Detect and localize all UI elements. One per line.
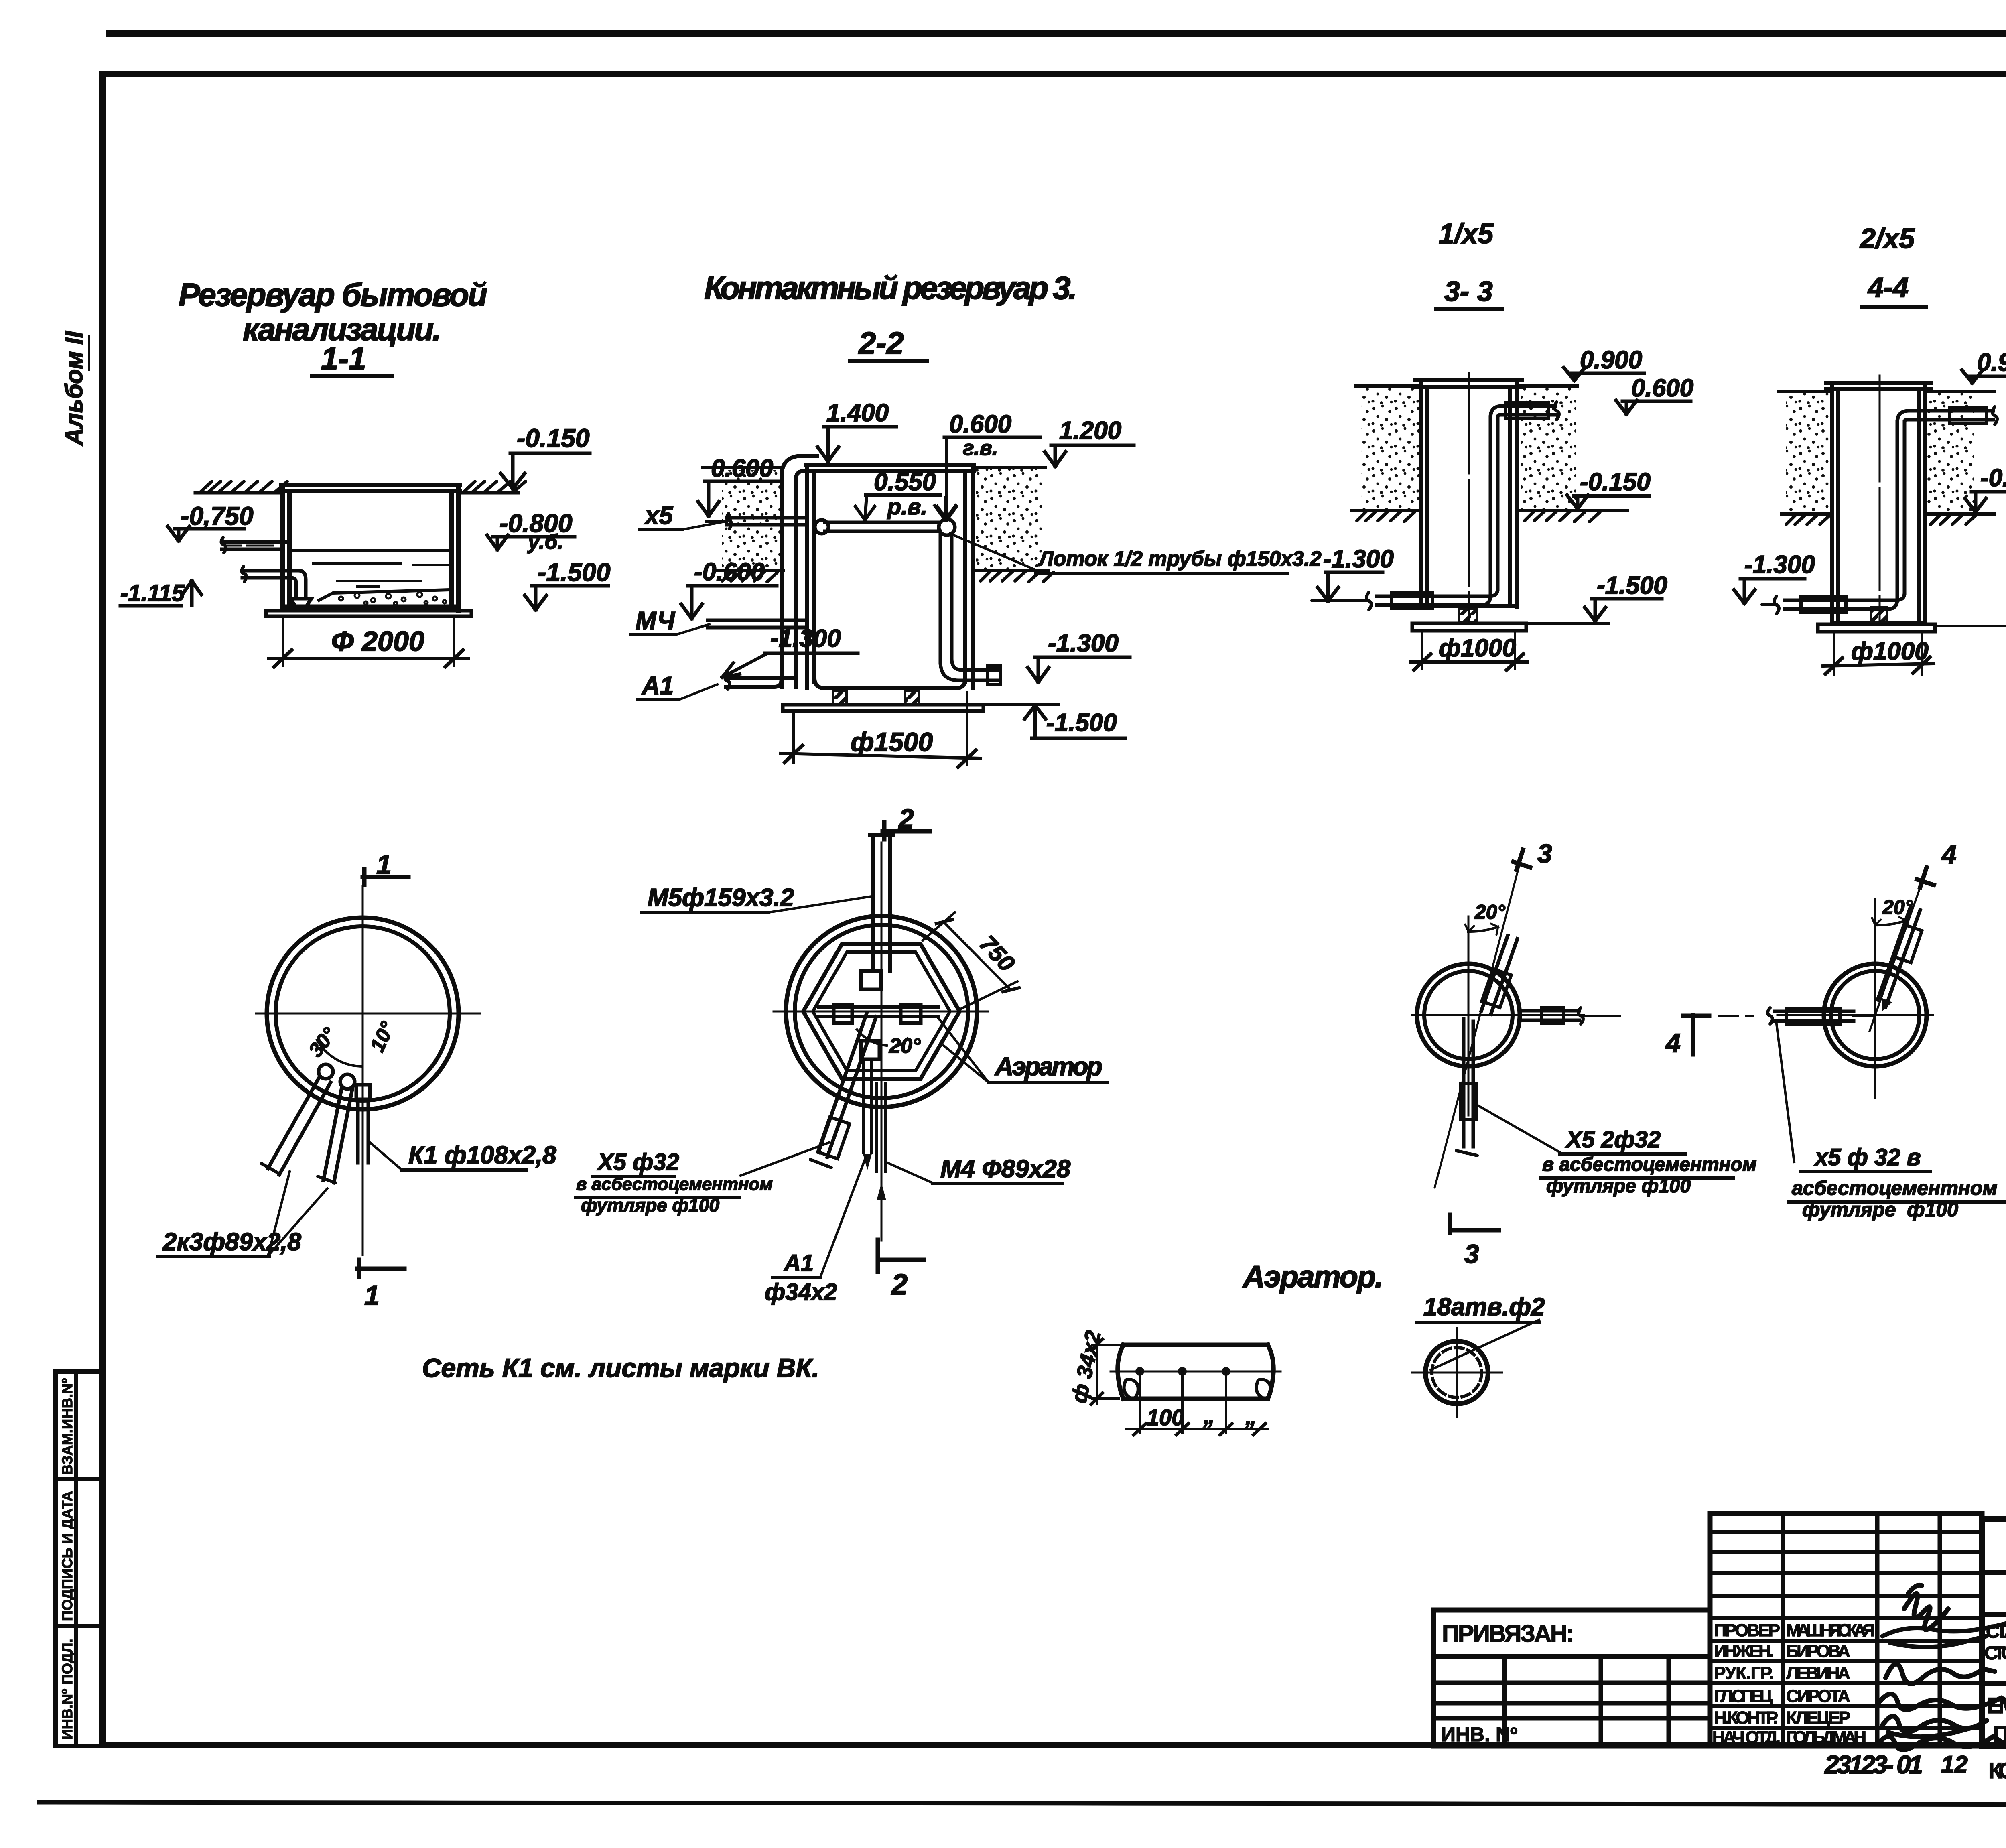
- svg-text:„: „: [1245, 1404, 1257, 1429]
- X5 pipe arrow to center plan4: [1882, 998, 1892, 1012]
- tank 4-4 right wall: [1919, 383, 1925, 624]
- elevation -1.300 arrow 3-3: [1318, 572, 1338, 601]
- label Х5 2ф32 underline1: [1560, 1152, 1685, 1156]
- label 2к3 leader 1: [268, 1172, 290, 1256]
- hole line 3: [1225, 1371, 1227, 1433]
- plan3 inner circle: [1424, 971, 1513, 1059]
- plan2 vertical axis: [881, 843, 883, 1241]
- elevation -0.150 arrow 4-4: [1965, 492, 1986, 512]
- svg-text:СИРОТА: СИРОТА: [1786, 1686, 1850, 1706]
- ground line right 4-4: [1926, 390, 1994, 393]
- elevation -1.115 shelf: [120, 604, 181, 608]
- water level line tank 1-1: [289, 549, 452, 552]
- X5 angled pipe plan3: [1481, 936, 1517, 1014]
- pipe K1 square coupling: [356, 1085, 370, 1099]
- svg-text:Альбом II: Альбом II: [61, 331, 87, 446]
- inlet pipe K1 upper: [222, 542, 289, 549]
- dim 2000 ext line left: [282, 616, 284, 666]
- elevation -1.500 shelf: [532, 584, 608, 588]
- X5 pipe end break: [810, 1160, 831, 1168]
- slab extension line 3-3: [1526, 622, 1609, 625]
- plan4 horizontal axis: [1777, 1014, 1933, 1016]
- sheet outer top edge line: [109, 30, 2006, 37]
- title 2-2 underline: [850, 359, 927, 363]
- svg-text:М4 Ф89х28: М4 Ф89х28: [940, 1155, 1071, 1183]
- angle arc plan3: [1468, 927, 1498, 932]
- svg-text:БИРОВА: БИРОВА: [1786, 1641, 1850, 1661]
- tank 1-1 left wall: [283, 485, 289, 607]
- svg-text:20°: 20°: [1474, 901, 1506, 923]
- ground hatch left of tank 1-1: [201, 481, 287, 492]
- dim ф34х2 ext lines: [1092, 1345, 1122, 1399]
- signature squiggle 3: [1886, 1664, 1995, 1684]
- lower pipe with elbow: [242, 571, 306, 599]
- elevation 0.600 гв shelf: [944, 436, 1040, 439]
- svg-text:в асбестоцементном: в асбестоцементном: [1542, 1154, 1756, 1175]
- tank 2-2 right wall: [965, 465, 973, 688]
- elevation -1.500 arrow: [525, 586, 546, 610]
- dim 1000 line 4-4: [1823, 664, 1934, 666]
- svg-text:-0.150: -0.150: [517, 424, 589, 453]
- label 18 отв leader: [1431, 1320, 1539, 1370]
- pipe B end break: [318, 1176, 335, 1183]
- riser bottom elbow 3-3: [1481, 589, 1498, 605]
- aerator pipe side view body: [1118, 1345, 1274, 1399]
- tank 1-1 base slab: [266, 611, 471, 616]
- elevation 1.400 arrow: [818, 427, 839, 461]
- name table col line 1: [1781, 1513, 1785, 1746]
- svg-text:ПРИВЯЗАН:: ПРИВЯЗАН:: [1442, 1620, 1574, 1647]
- ground hatch right of tank 1-1: [464, 481, 526, 492]
- svg-text:„: „: [1203, 1403, 1215, 1428]
- svg-text:НАЧ ОТД.: НАЧ ОТД.: [1712, 1728, 1781, 1747]
- angle arc plan4: [1875, 920, 1907, 925]
- label X5 underline: [640, 528, 682, 531]
- support pad hatched 4-4: [1871, 607, 1887, 622]
- elevation 0.900 arrow 3-3: [1564, 368, 1585, 380]
- elevation -0.150 arrow 3-3: [1567, 495, 1588, 509]
- svg-text:Сеть К1 см. листы марки ВК.: Сеть К1 см. листы марки ВК.: [422, 1353, 819, 1383]
- aerator hexagon inner: [813, 952, 950, 1071]
- elevation -0.150 arrow: [501, 453, 525, 489]
- center line 4-4: [1879, 376, 1881, 623]
- svg-text:-1.300: -1.300: [1744, 551, 1815, 579]
- plan3 horizontal axis: [1412, 1014, 1584, 1016]
- angle arc plan2: [857, 1030, 908, 1047]
- привязан grid vline2: [1599, 1656, 1603, 1746]
- tank 1-1 floor line: [283, 605, 458, 609]
- X5 vertical pipe below center plan3: [1464, 1019, 1473, 1147]
- elevation 0.600 left arrow: [698, 481, 719, 516]
- tank 1-1 right wall: [452, 485, 458, 611]
- label Х5 leader plan2: [741, 1143, 829, 1176]
- dim 2000 line: [269, 657, 469, 660]
- svg-text:-1.300: -1.300: [770, 625, 841, 652]
- tank 2-2 floor with rounded corners: [814, 678, 965, 688]
- ground hatch marks right 2-2: [981, 571, 1054, 582]
- svg-text:2: 2: [891, 1269, 908, 1301]
- inlet pipe dash center: [225, 545, 273, 547]
- svg-text:Н.КОНТР.: Н.КОНТР.: [1714, 1708, 1778, 1728]
- svg-text:3: 3: [1464, 1239, 1479, 1269]
- album label underline: [88, 336, 90, 370]
- svg-text:ИНВ.Nº ПОДЛ.: ИНВ.Nº ПОДЛ.: [59, 1639, 75, 1740]
- aerator cross section outer circle: [1425, 1341, 1488, 1404]
- label Х5 ф32в underline2: [1789, 1200, 2006, 1204]
- plan4 inner circle: [1831, 971, 1919, 1059]
- elevation -0.750 arrow: [168, 526, 189, 541]
- svg-text:0.600: 0.600: [711, 455, 773, 482]
- elevation 0.900 arrow 4-4: [1962, 370, 1983, 383]
- inlet pipe left break: [221, 538, 226, 553]
- pipe A end break: [262, 1164, 278, 1173]
- ground line left of tank 1-1: [195, 491, 283, 495]
- svg-text:0.550: 0.550: [874, 468, 936, 496]
- tank 1-1 top slab double line: [281, 485, 460, 491]
- pipe K1 vertical double line: [358, 1099, 368, 1163]
- horizontal pipe coupling plan3: [1541, 1007, 1564, 1024]
- ground hatch line right 4-4: [1925, 512, 1994, 516]
- signature squiggle 5: [1882, 1716, 1987, 1737]
- sediment slope line: [319, 590, 450, 600]
- aerator hexagon outer: [803, 944, 960, 1079]
- interior riser pipe 3-3: [1490, 417, 1498, 595]
- title 3-3 underline: [1436, 307, 1502, 311]
- привязан header bottom line: [1433, 1654, 1710, 1659]
- svg-text:М5ф159х3.2: М5ф159х3.2: [648, 884, 794, 912]
- ground hatch marks left 3-3: [1357, 511, 1415, 522]
- привязан grid vline1: [1502, 1656, 1507, 1746]
- riser top elbow and outlet stub 4-4: [1897, 411, 1993, 422]
- elevation -0.150 shelf 3-3: [1574, 494, 1649, 498]
- svg-text:Лоток 1/2 трубы ф150х3.2: Лоток 1/2 трубы ф150х3.2: [1038, 547, 1322, 571]
- dim 750 line: [944, 922, 1011, 990]
- ground stipple left 4-4: [1786, 393, 1829, 513]
- ground stipple left 3-3: [1361, 388, 1419, 510]
- elevation 1.200 arrow: [1045, 445, 1066, 466]
- svg-text:р.в.: р.в.: [887, 494, 927, 519]
- elevation 0.900 shelf 4-4: [1968, 375, 2006, 378]
- bottom pipe coupling 4-4: [1801, 597, 1846, 612]
- bottom pipe flow arrow break 4-4: [1762, 596, 1779, 614]
- svg-text:ГОЛЬДМАН: ГОЛЬДМАН: [1786, 1728, 1866, 1747]
- elevation 0.600 arrow 3-3: [1616, 400, 1637, 414]
- svg-text:0.600: 0.600: [949, 410, 1011, 438]
- dim 750 ext line 1: [923, 912, 955, 940]
- svg-text:1/х5: 1/х5: [1439, 218, 1494, 249]
- ground hatch line right 3-3: [1519, 509, 1627, 512]
- А1 pipe flow arrow: [863, 1154, 872, 1170]
- horizontal pipe coupling plan4: [1786, 1008, 1840, 1024]
- elevation -1.300 left arrow: [722, 654, 766, 677]
- svg-text:4: 4: [1665, 1028, 1681, 1058]
- horizontal pipe left plan4: [1775, 1011, 1854, 1021]
- tank 2-2 left wall: [807, 465, 814, 688]
- svg-text:-1.300: -1.300: [1323, 545, 1394, 573]
- svg-text:ВЗАМ.ИНВ.Nº: ВЗАМ.ИНВ.Nº: [59, 1378, 75, 1475]
- sediment dots: [339, 592, 446, 605]
- aerator cross section holes circle dashed: [1432, 1348, 1482, 1397]
- svg-text:3: 3: [1537, 839, 1552, 868]
- ground line left 4-4: [1779, 390, 1831, 393]
- elbow circle A: [319, 1064, 333, 1079]
- dim 1000 tick right 3-3: [1507, 654, 1523, 670]
- tank 3-3 base slab: [1412, 623, 1526, 631]
- elevation 0.600 left shelf: [705, 480, 780, 483]
- svg-text:СТАНЦИЯ БИОЛОГИЧЕСКОЙ ОЧИСТКИ: СТАНЦИЯ БИОЛОГИЧЕСКОЙ ОЧИСТКИ: [1986, 1621, 2006, 1642]
- stamp column divider vertical: [74, 1372, 78, 1746]
- right water level arrow: [935, 498, 956, 520]
- X5 angled pipe 20deg: [818, 1013, 876, 1157]
- ground line right of tank 1-1: [458, 491, 518, 495]
- svg-text:-1.500: -1.500: [538, 558, 610, 587]
- elevation 0.600 гв arrow long: [937, 437, 956, 520]
- elevation -0.800 shelf: [493, 535, 575, 539]
- A1 pipe left break: [725, 674, 730, 689]
- horizontal connector pipe: [818, 1007, 939, 1017]
- svg-text:г.в.: г.в.: [963, 437, 998, 460]
- dim 1000 ext right 4-4: [1921, 633, 1923, 675]
- elevation 1.200 shelf: [1051, 444, 1134, 447]
- X5 angled coupling plan4: [1894, 925, 1922, 963]
- elevation -0.600 arrow: [681, 586, 702, 619]
- elevation -0.150 shelf: [510, 452, 590, 455]
- svg-text:х5 ф 32 в: х5 ф 32 в: [1814, 1144, 1921, 1170]
- horizontal pipe end hook plan3: [1578, 1008, 1583, 1024]
- ground line left 3-3: [1356, 384, 1420, 388]
- elevation -1.300 arrow 4-4: [1734, 579, 1755, 603]
- label М5 leader: [769, 896, 871, 912]
- tank 4-4 floor: [1832, 621, 1925, 625]
- section marker 3 top slanted: [1513, 850, 1530, 870]
- label А1 leader: [679, 684, 717, 700]
- svg-text:12: 12: [1941, 1751, 1968, 1778]
- plan2 inner circle: [795, 925, 968, 1098]
- plan3 slanted cut line: [1435, 865, 1519, 1188]
- elevation -1.300 shelf 4-4: [1740, 577, 1805, 581]
- hole dim line: [1126, 1428, 1268, 1430]
- tank 4-4 top double line: [1826, 383, 1931, 389]
- dim 0.550 line: [866, 493, 940, 497]
- svg-text:А1: А1: [783, 1250, 814, 1276]
- svg-text:2/х5: 2/х5: [1859, 223, 1915, 254]
- section marker 2 bottom plan2: [878, 1241, 924, 1272]
- elbow circle B: [340, 1074, 355, 1089]
- ground hatch marks left 4-4: [1786, 515, 1830, 524]
- А1 pipe down: [863, 1059, 871, 1152]
- outlet stub end hook 3-3: [1554, 402, 1559, 420]
- label X5 leader: [682, 521, 727, 530]
- signature squiggle 1: [1904, 1585, 1948, 1630]
- ground hatch marks right 4-4: [1931, 515, 1976, 524]
- section marker 3 bottom: [1450, 1215, 1499, 1233]
- tank 2-2 base slab: [783, 705, 983, 711]
- trough left end circle: [815, 520, 828, 534]
- svg-text:ЛЕВИНА: ЛЕВИНА: [1786, 1663, 1850, 1683]
- tank 3-3 left wall: [1421, 380, 1427, 607]
- hole dot 1: [1135, 1367, 1144, 1376]
- left stamp column outline: [55, 1372, 103, 1746]
- svg-text:3- 3: 3- 3: [1444, 276, 1493, 307]
- ground line left of tank 2-2: [703, 466, 782, 469]
- angle arc plan1: [317, 1040, 362, 1066]
- svg-text:-1.500: -1.500: [1597, 572, 1667, 599]
- label К1 underline: [402, 1168, 526, 1172]
- dim 1500 tick right: [958, 750, 976, 767]
- elevation -1.300 shelf 3-3: [1326, 571, 1383, 574]
- horizontal pipe tail plan4: [1854, 1015, 1875, 1017]
- svg-text:ф1000: ф1000: [1851, 638, 1929, 665]
- elevation -1.500 right arrow up: [1025, 705, 1046, 738]
- X5 inlet pipe horizontal: [727, 518, 806, 525]
- svg-text:х5: х5: [644, 502, 673, 530]
- name table col line 3: [1938, 1513, 1942, 1746]
- label 2к3 underline: [157, 1255, 270, 1258]
- label аэратор underline: [989, 1081, 1107, 1084]
- name table row lines: [1710, 1532, 1982, 1728]
- привязан box outline: [1433, 1610, 1710, 1746]
- ground stipple right 4-4: [1927, 393, 1974, 513]
- svg-text:ПОДПИСЬ И ДАТА: ПОДПИСЬ И ДАТА: [59, 1491, 75, 1621]
- ground stipple left berm: [722, 470, 780, 570]
- X5 pipe end break plan3: [1456, 1151, 1477, 1156]
- svg-text:ф34х2: ф34х2: [765, 1279, 837, 1305]
- title 4-4 underline: [1862, 305, 1926, 309]
- label аэратор leader 2: [944, 1046, 989, 1082]
- label М4 leader plan2: [887, 1163, 932, 1183]
- sheet outer bottom edge line: [39, 1802, 2006, 1805]
- outlet stub coupling 3-3: [1505, 403, 1549, 419]
- horizontal pipe right plan3: [1520, 1011, 1579, 1020]
- elevation -1.300 right arrow: [1028, 657, 1049, 682]
- bottom pipe flow arrow break 3-3: [1312, 592, 1371, 610]
- label М4 underline: [631, 633, 676, 636]
- dim ф34х2 ticks: [1091, 1339, 1102, 1404]
- dim 750 tick 1: [936, 920, 952, 924]
- svg-text:Φ 2000: Φ 2000: [331, 625, 424, 657]
- label Х5 ф32 underline2: [575, 1196, 740, 1199]
- М5 pipe top cap: [870, 833, 893, 837]
- svg-text:Резервуар бытовой: Резервуар бытовой: [179, 277, 487, 313]
- М5 riser pipe vertical: [873, 835, 890, 971]
- center line 3-3: [1468, 373, 1470, 623]
- svg-text:ф1500: ф1500: [851, 727, 933, 757]
- elevation -0.800 arrow: [487, 535, 508, 550]
- coupling square bottom: [861, 1041, 879, 1059]
- plan1 horizontal axis: [256, 1013, 480, 1015]
- hole line 2: [1181, 1371, 1184, 1433]
- svg-text:Аэратор.: Аэратор.: [1242, 1260, 1383, 1294]
- svg-text:2: 2: [898, 804, 914, 834]
- svg-text:0.600: 0.600: [1631, 374, 1693, 402]
- ground line right of tank 2-2: [975, 466, 1046, 469]
- label М4 underline plan2: [932, 1182, 1062, 1185]
- label М5 underline: [642, 911, 769, 914]
- outlet pipe through right wall: [988, 666, 1001, 684]
- привязан grid vline3: [1667, 1656, 1671, 1746]
- svg-text:Х5 ф32: Х5 ф32: [597, 1149, 679, 1175]
- svg-text:у.б.: у.б.: [527, 530, 563, 554]
- elevation 0.900 shelf 3-3: [1570, 372, 1644, 375]
- привязан grid hline3: [1433, 1701, 1710, 1706]
- signature squiggle 2: [1882, 1617, 2006, 1647]
- svg-text:асбестоцементном: асбестоцементном: [1792, 1177, 1998, 1199]
- label А1 leader plan2: [821, 1157, 866, 1276]
- svg-text:-1.300: -1.300: [1048, 630, 1119, 657]
- aerator cross section h axis: [1412, 1372, 1502, 1374]
- section marker 2 top: [883, 822, 930, 839]
- label М4 leader: [676, 624, 709, 635]
- dim 0.550 left arrow: [855, 495, 875, 520]
- ground stipple right 3-3: [1521, 388, 1576, 510]
- ground hatch line left 4-4: [1781, 512, 1832, 516]
- dim 1000 ext left 4-4: [1833, 633, 1835, 675]
- X5 pipe left break flow arrow: [706, 514, 731, 529]
- plan3 outer circle: [1417, 964, 1520, 1066]
- plan2 outer circle: [786, 916, 977, 1107]
- plan1 outer circle: [267, 918, 459, 1109]
- signature squiggle 4: [1879, 1694, 2006, 1710]
- right title area outline: [1982, 1519, 2006, 1746]
- tank 4-4 left wall: [1832, 383, 1838, 624]
- svg-text:ПЛАНЫ. РАЗРЕЗЫ.: ПЛАНЫ. РАЗРЕЗЫ.: [1993, 1721, 2006, 1746]
- dim 1000 tick left 4-4: [1825, 658, 1842, 674]
- ground stipple right berm: [976, 468, 1043, 570]
- riser bottom elbow 4-4: [1888, 593, 1904, 609]
- plan4 slanted cut line: [1870, 883, 1922, 1031]
- coupling square top: [861, 971, 881, 989]
- svg-text:футляре ф100: футляре ф100: [581, 1195, 719, 1216]
- tank 3-3 floor: [1421, 604, 1517, 608]
- svg-text:ИНЖЕН.: ИНЖЕН.: [1714, 1641, 1774, 1661]
- outlet stub coupling 4-4: [1950, 408, 1987, 424]
- X5 angled pipe plan4: [1878, 907, 1920, 1007]
- svg-text:20°: 20°: [889, 1034, 921, 1058]
- svg-text:4-4: 4-4: [1867, 272, 1909, 303]
- dim 1000 ext right 3-3: [1514, 632, 1516, 669]
- dim 750 tick 2: [1003, 988, 1019, 992]
- elevation -1.500 right shelf: [1032, 737, 1125, 740]
- dim 1000 line 3-3: [1411, 660, 1527, 664]
- stamp cell divider 1: [55, 1477, 103, 1481]
- drop pipe vertical: [940, 531, 952, 663]
- емкостные сооружения bottom cell line: [1982, 1681, 2006, 1686]
- dim 1500 tick left: [785, 745, 802, 762]
- hole line 1: [1139, 1371, 1141, 1433]
- elevation -0.600 shelf: [688, 584, 777, 588]
- elevation -1.300 left shelf: [765, 652, 858, 655]
- svg-text:-0.600: -0.600: [694, 558, 765, 586]
- elevation -0.750 shelf: [175, 527, 244, 531]
- section marker 4 top slanted: [1917, 867, 1934, 887]
- svg-text:Х5 2ф32: Х5 2ф32: [1565, 1127, 1661, 1153]
- svg-text:ГЛ.СПЕЦ.: ГЛ.СПЕЦ.: [1714, 1686, 1774, 1706]
- svg-text:ф1000: ф1000: [1439, 634, 1516, 662]
- trough right elbow circle: [939, 519, 955, 535]
- svg-text:ПРОВЕР: ПРОВЕР: [1714, 1621, 1780, 1640]
- lower pipe left break: [242, 567, 246, 582]
- horizontal pipe break plan4: [1768, 1008, 1773, 1024]
- label лоток leader: [950, 534, 1039, 571]
- section marker 1 top: [363, 869, 408, 885]
- X5 angled coupling plan3: [1482, 969, 1511, 1008]
- axis dash between plan3 and plan4: [1586, 1015, 1752, 1017]
- svg-text:-1.115: -1.115: [120, 580, 185, 606]
- svg-text:футляре ф100: футляре ф100: [1802, 1198, 1958, 1221]
- label Х5 ф32в leader plan4: [1777, 1024, 1794, 1162]
- dim 1000 tick right 4-4: [1913, 657, 1930, 673]
- X5 vertical coupling plan3: [1460, 1083, 1476, 1119]
